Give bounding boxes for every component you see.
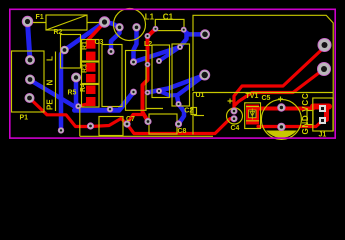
svg-text:N: N (46, 80, 55, 86)
svg-text:R3: R3 (82, 64, 89, 73)
svg-text:R2: R2 (54, 29, 63, 36)
svg-text:C1: C1 (163, 12, 174, 21)
svg-text:C3: C3 (95, 39, 104, 46)
svg-text:P1: P1 (20, 115, 29, 122)
svg-text:F1: F1 (36, 14, 44, 21)
svg-text:U1: U1 (196, 92, 205, 99)
svg-text:C2: C2 (184, 108, 193, 115)
svg-text:C5: C5 (262, 95, 271, 102)
svg-text:L: L (46, 56, 55, 61)
svg-text:J1: J1 (319, 132, 327, 139)
svg-text:C7: C7 (126, 116, 135, 123)
svg-text:L1: L1 (145, 12, 155, 21)
svg-text:C4: C4 (231, 125, 240, 132)
svg-text:PE: PE (46, 99, 55, 110)
svg-text:C8: C8 (178, 128, 187, 135)
svg-text:R4: R4 (80, 83, 87, 92)
svg-text:L2: L2 (144, 41, 152, 48)
svg-text:R5: R5 (68, 90, 77, 97)
svg-text:TV1: TV1 (246, 93, 259, 100)
svg-text:R1: R1 (82, 41, 89, 50)
svg-text:GND VCC: GND VCC (301, 93, 310, 135)
